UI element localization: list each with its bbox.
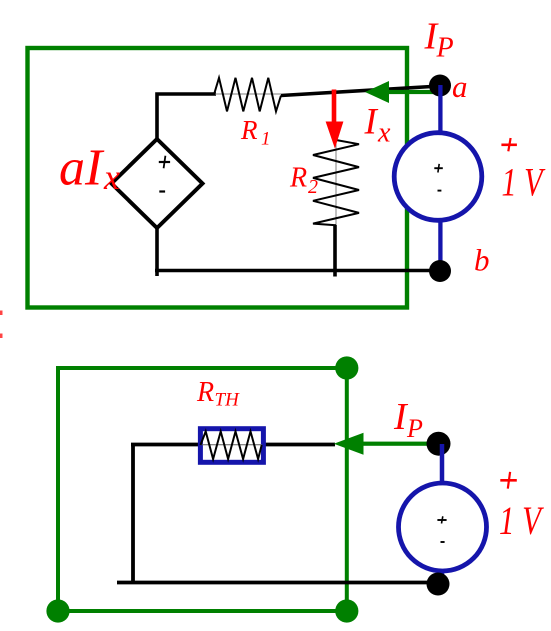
- wire blue stub node a to source: [438, 85, 442, 133]
- wire blue stub to bottom source: [440, 444, 445, 486]
- label IP bottom: [393, 396, 423, 443]
- svg-text:P: P: [436, 33, 454, 64]
- voltage source V2: [399, 483, 487, 571]
- svg-text:I: I: [364, 102, 379, 143]
- svg-text:R: R: [240, 115, 258, 145]
- svg-text:TH: TH: [215, 390, 241, 411]
- node a: [429, 75, 451, 97]
- voltage source V1: [394, 133, 482, 221]
- wire blue stub source to node b: [438, 220, 442, 271]
- wire top horizontal left of RTH: [131, 443, 200, 447]
- current arrow IP green bottom: [334, 433, 442, 455]
- current arrow Ix red: [326, 90, 344, 149]
- label aIx: [59, 140, 120, 198]
- wire blue stub bottom of source: [440, 570, 445, 584]
- svg-text:R: R: [196, 377, 214, 408]
- resistor RTH with blue box: [200, 429, 263, 463]
- svg-text:aI: aI: [59, 140, 105, 197]
- svg-text:a: a: [452, 69, 468, 104]
- outer box bottom Thevenin circuit boundary: [58, 368, 347, 611]
- svg-text:2: 2: [308, 176, 318, 198]
- label Ix: [364, 102, 392, 149]
- wire bottom of top circuit: [155, 269, 441, 273]
- outer box top circuit boundary: [28, 48, 408, 308]
- svg-text:x: x: [103, 157, 120, 197]
- wire R2 bottom stub: [333, 225, 337, 277]
- node bottom of source: [427, 573, 450, 596]
- wire top horizontal right of RTH: [264, 443, 335, 447]
- label RTH: [196, 377, 240, 411]
- current arrow IP green top: [365, 81, 442, 103]
- node green junction bottom-left: [46, 599, 69, 622]
- resistor R1: [214, 78, 281, 112]
- wire left vertical bottom circuit: [131, 445, 135, 584]
- label V1 polarity plus: [501, 138, 517, 151]
- svg-text:1: 1: [261, 129, 271, 150]
- svg-text:P: P: [406, 414, 423, 443]
- red tick marks at left edge: [0, 311, 3, 339]
- node top of bottom source: [427, 432, 451, 456]
- node green junction bottom-right: [335, 599, 358, 622]
- wire top-left L from diamond top to R1: [157, 94, 216, 141]
- wire diamond bottom stub: [155, 228, 159, 276]
- label R2: [289, 163, 318, 199]
- resistor R2: [313, 140, 359, 225]
- wire slanted from R1 to node a: [281, 86, 440, 96]
- label R1: [240, 115, 271, 150]
- node green junction top-right: [335, 356, 358, 379]
- node b: [429, 260, 451, 282]
- svg-text:b: b: [474, 243, 490, 278]
- svg-text:1 V: 1 V: [499, 498, 545, 543]
- svg-text:1 V: 1 V: [502, 159, 546, 204]
- svg-text:R: R: [289, 163, 307, 194]
- wire bottom horizontal of bottom circuit: [117, 581, 438, 585]
- svg-text:x: x: [377, 118, 391, 149]
- dependent source U1 aIx diamond: [112, 139, 203, 228]
- label IP top: [424, 15, 454, 63]
- label V2 polarity plus: [500, 472, 517, 489]
